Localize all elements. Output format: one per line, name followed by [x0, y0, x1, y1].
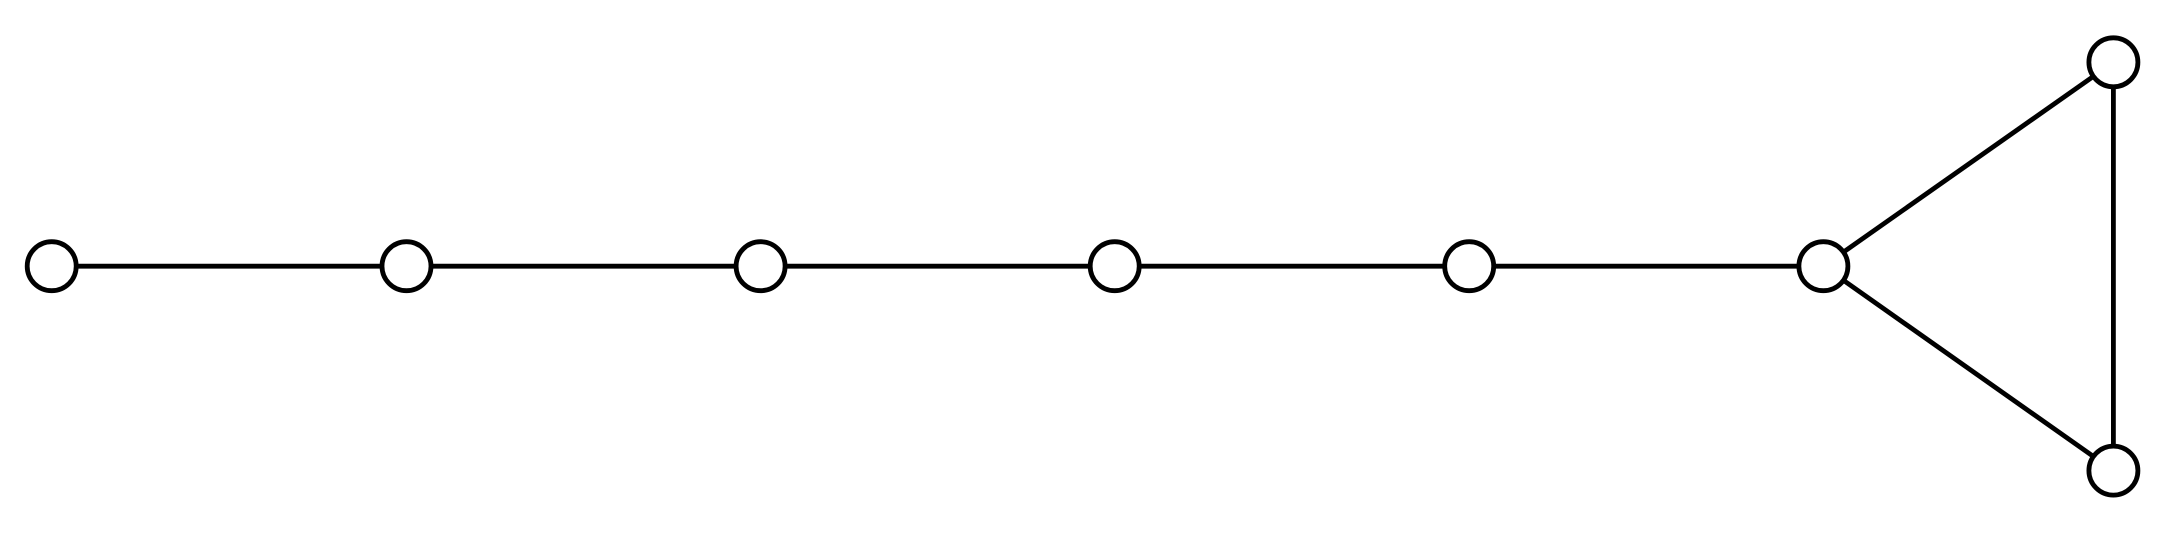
node 5	[1445, 242, 1494, 291]
wire edge 6-8	[1823, 266, 2113, 470]
wire edge 2-3	[407, 264, 761, 269]
node 4	[1090, 242, 1139, 291]
node 3	[736, 242, 785, 291]
wire edge 1-2	[52, 264, 407, 269]
node 2	[382, 242, 431, 291]
wire edge 3-4	[761, 264, 1115, 269]
wire edge 4-5	[1115, 264, 1470, 269]
node 6	[1799, 242, 1848, 291]
wire edge 5-6	[1469, 264, 1823, 269]
node 8	[2089, 446, 2138, 495]
node 7	[2089, 38, 2138, 87]
wire edge 6-7	[1823, 62, 2113, 266]
wire edge 7-8	[2111, 62, 2116, 470]
node 1	[27, 242, 76, 291]
